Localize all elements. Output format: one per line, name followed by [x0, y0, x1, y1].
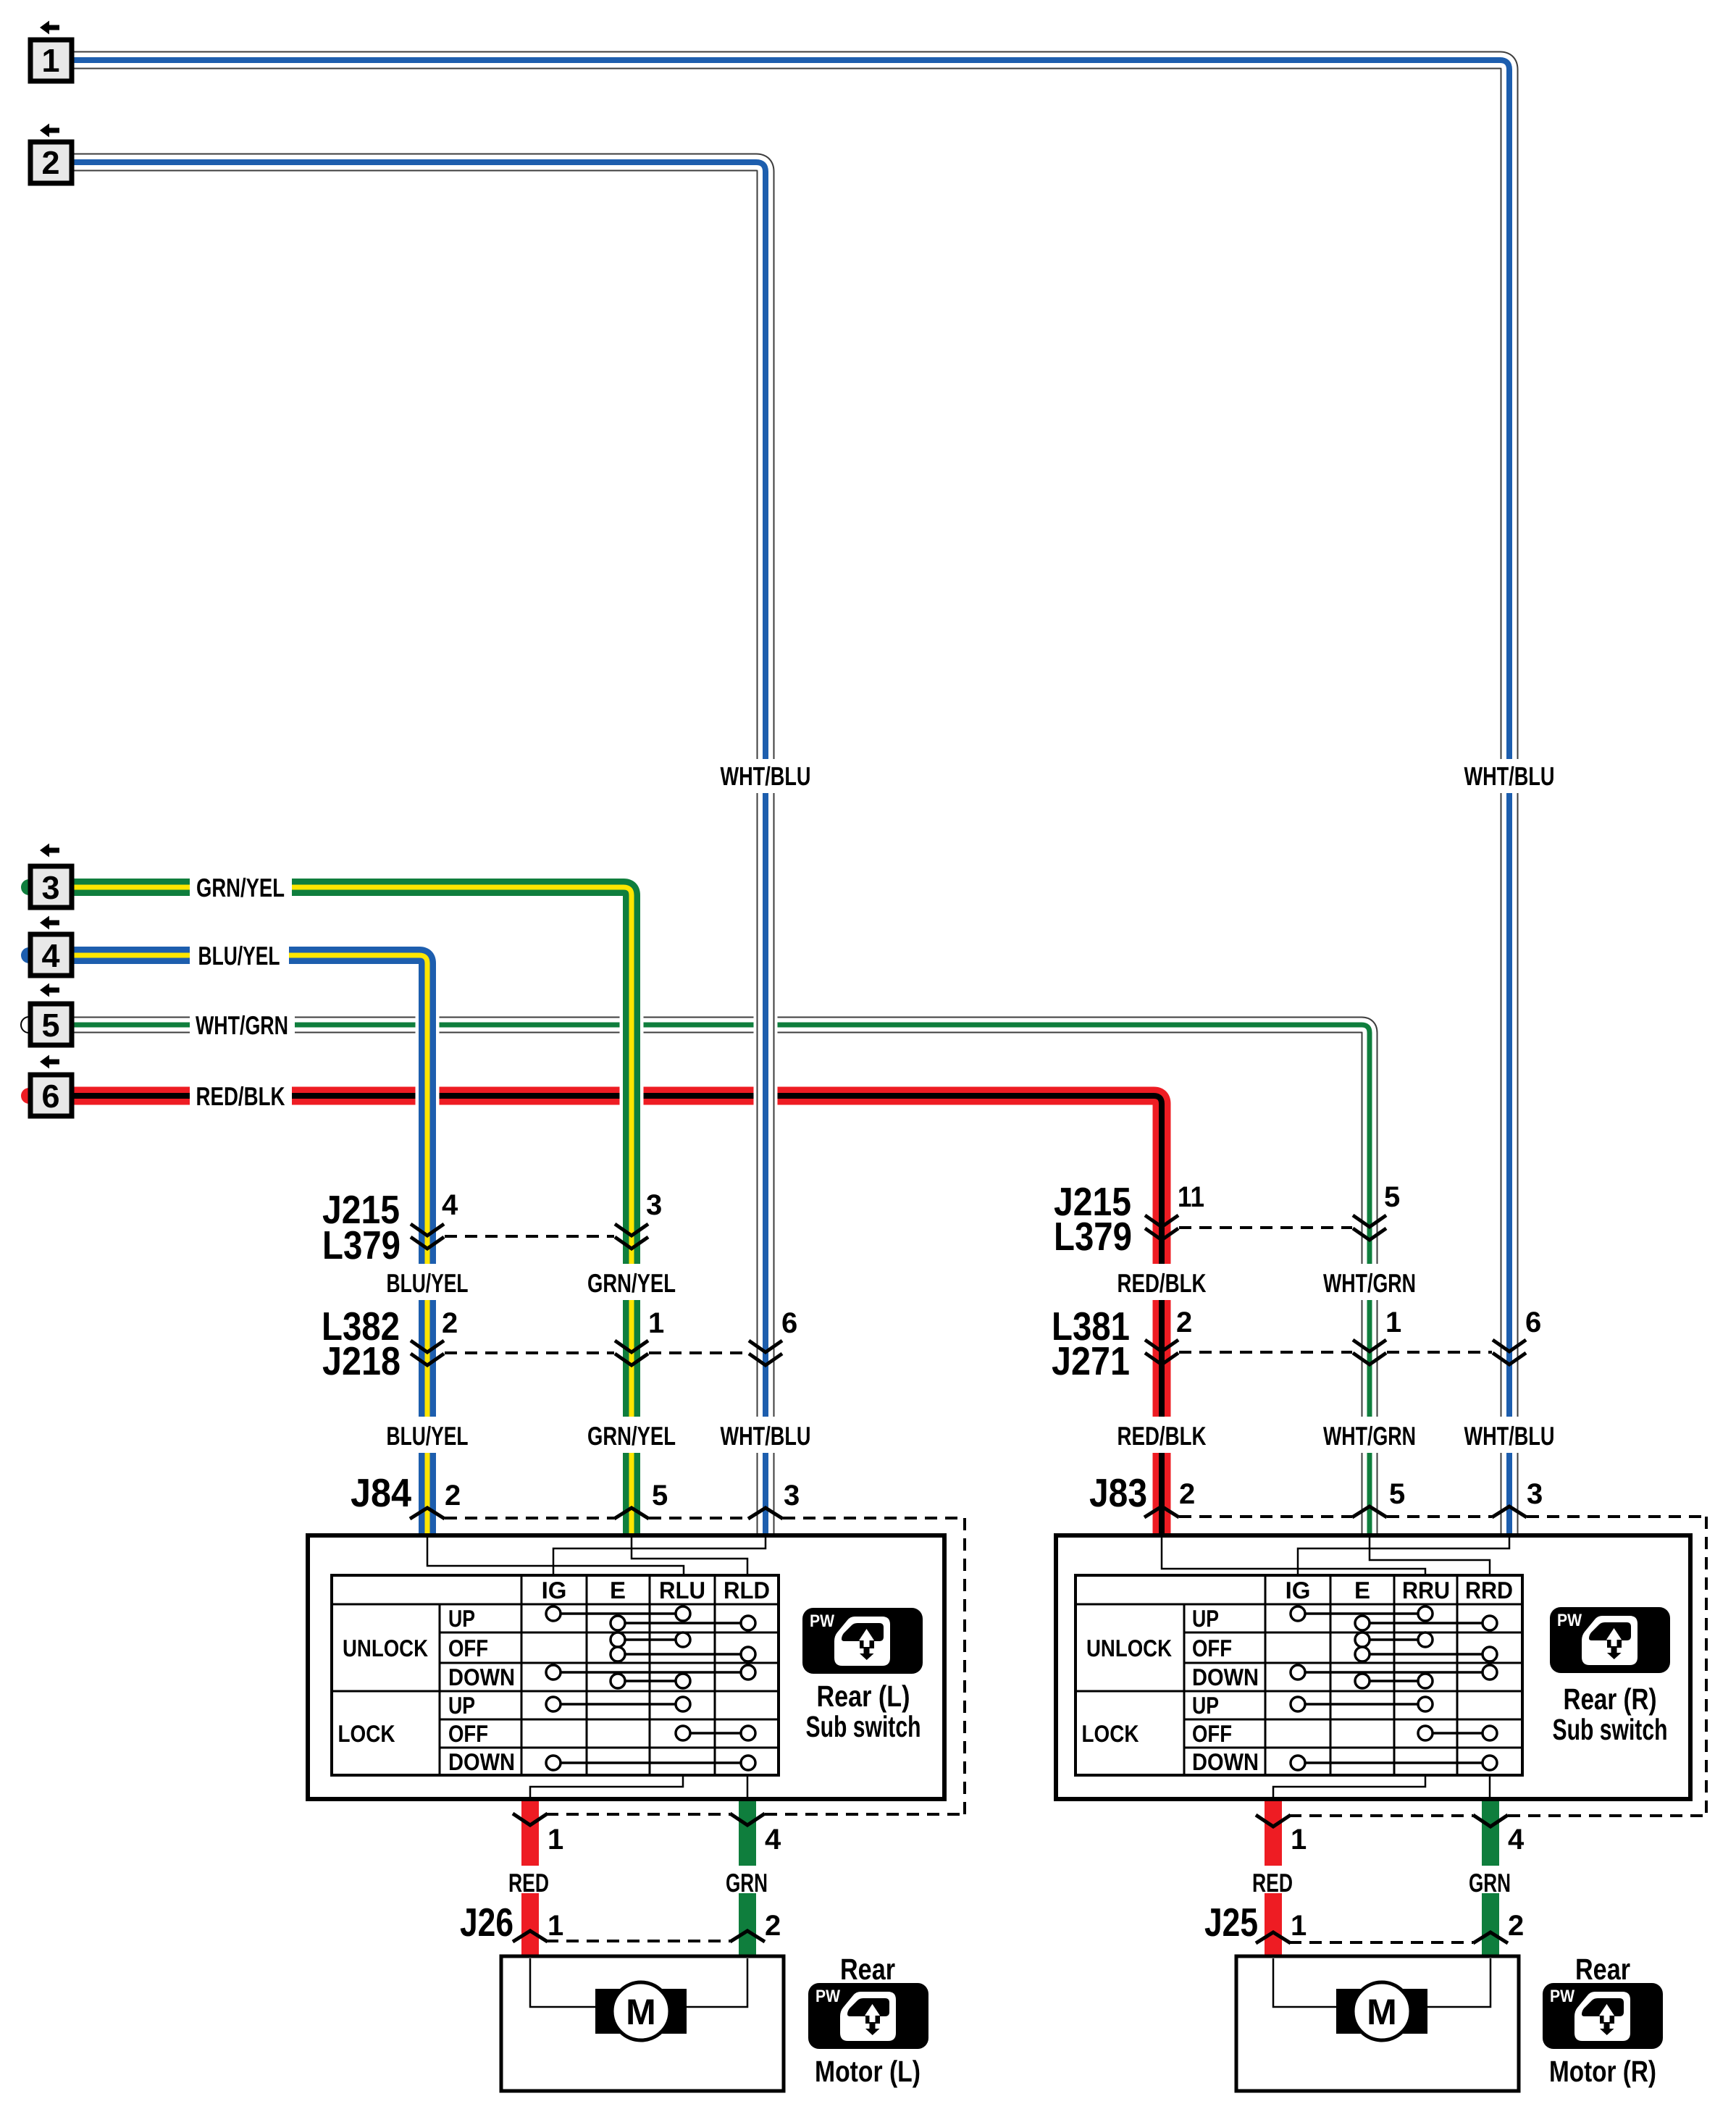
svg-text:OFF: OFF [448, 1720, 488, 1747]
wire label RED/BLK [190, 1079, 292, 1112]
connector pin symbol J83 pin 3 [1492, 1506, 1527, 1517]
motor M symbol left [595, 1982, 687, 2040]
svg-text:UP: UP [1192, 1692, 1219, 1719]
wire inside left sub switch from RLU to pin 1 [530, 1775, 683, 1801]
svg-text:GRN/YEL: GRN/YEL [587, 1421, 676, 1451]
svg-text:DOWN: DOWN [448, 1748, 515, 1775]
svg-text:5: 5 [41, 1007, 59, 1044]
svg-text:J84: J84 [351, 1470, 411, 1515]
svg-text:L379: L379 [322, 1223, 401, 1267]
right switch contacts [1291, 1606, 1497, 1770]
svg-text:2: 2 [445, 1480, 461, 1512]
svg-text:1: 1 [548, 1910, 563, 1942]
wire label WHT/BLU below L381 [1461, 1417, 1558, 1453]
svg-text:Sub switch: Sub switch [1553, 1713, 1668, 1746]
svg-text:M: M [626, 1992, 656, 2032]
junction L382 J218 dashed line [445, 1351, 748, 1354]
connector 4 box [30, 934, 72, 976]
svg-text:WHT/BLU: WHT/BLU [1464, 761, 1555, 791]
svg-text:BLU/YEL: BLU/YEL [198, 941, 280, 971]
wire RED from left sub switch pin 1 to J26 pin 1 [521, 1799, 539, 1956]
svg-text:2: 2 [41, 144, 59, 181]
svg-text:RLD: RLD [724, 1577, 770, 1604]
wire label GRN/YEL below J215 [578, 1264, 685, 1300]
svg-text:1: 1 [548, 1824, 563, 1856]
connector pin symbol J84 pin 2 [410, 1508, 445, 1519]
svg-text:OFF: OFF [448, 1635, 488, 1661]
wire GRN/YEL from connector 3 to J84 pin 5 [73, 887, 632, 1536]
wire label RED left [507, 1866, 553, 1898]
svg-text:6: 6 [781, 1307, 797, 1339]
svg-text:GRN: GRN [1469, 1868, 1511, 1898]
svg-text:1: 1 [648, 1307, 664, 1339]
connector J26 dashed line [546, 1940, 730, 1942]
svg-text:2: 2 [1176, 1307, 1192, 1338]
svg-text:UP: UP [448, 1605, 475, 1632]
svg-text:1: 1 [1291, 1824, 1307, 1856]
connector 1 box [30, 40, 72, 81]
svg-text:Rear (R): Rear (R) [1564, 1682, 1657, 1716]
svg-text:2: 2 [1179, 1478, 1195, 1510]
wire RED from right sub switch pin 1 to J25 pin 1 [1265, 1799, 1282, 1956]
connector 1 arrow [40, 21, 59, 35]
motor left box [501, 1956, 784, 2091]
wire inside right sub switch from RED/BLK to RRU [1162, 1538, 1425, 1576]
svg-text:5: 5 [1384, 1181, 1400, 1213]
wire inside right sub switch from RRD to pin 4 [1489, 1775, 1491, 1801]
svg-text:5: 5 [652, 1480, 668, 1512]
svg-text:LOCK: LOCK [338, 1720, 395, 1747]
svg-text:UNLOCK: UNLOCK [1086, 1635, 1172, 1661]
svg-text:J271: J271 [1052, 1338, 1130, 1383]
svg-text:Motor (L): Motor (L) [815, 2055, 921, 2088]
svg-text:2: 2 [442, 1307, 458, 1339]
svg-text:5: 5 [1389, 1478, 1405, 1510]
svg-text:UP: UP [448, 1692, 475, 1719]
junction symbol on BLU/YEL at J215 pin 4 [411, 1224, 444, 1249]
junction symbol on WHT/GRN at right J215 pin 5 [1353, 1215, 1386, 1240]
connector pin symbol J84 pin 5 [614, 1508, 649, 1519]
svg-text:RED/BLK: RED/BLK [1118, 1268, 1207, 1298]
svg-text:WHT/BLU: WHT/BLU [721, 761, 811, 791]
svg-text:Rear: Rear [1575, 1953, 1630, 1986]
svg-text:RRU: RRU [1402, 1577, 1450, 1604]
junction symbol on WHT/GRN at L381 pin 1 [1353, 1340, 1386, 1364]
PW icon right sub switch [1550, 1607, 1670, 1673]
connector 2 box [30, 142, 72, 183]
wire label WHT/BLU on right vertical [1461, 759, 1558, 793]
connector 3 arrow [40, 844, 59, 858]
connector pin symbol J26 pin 1 [513, 1931, 548, 1942]
svg-text:RRD: RRD [1465, 1577, 1513, 1604]
wire label GRN/YEL below L382 [578, 1417, 685, 1453]
wire inside left motor box [530, 1958, 747, 2007]
svg-text:WHT/GRN: WHT/GRN [1323, 1421, 1416, 1451]
wire label WHT/GRN below L381 [1317, 1417, 1422, 1453]
junction symbol on GRN/YEL at J215 pin 3 [615, 1224, 648, 1249]
svg-text:J218: J218 [322, 1338, 401, 1383]
svg-text:4: 4 [1508, 1824, 1525, 1856]
wire inside left sub switch from GRN/YEL to RLD [632, 1538, 747, 1576]
svg-text:GRN/YEL: GRN/YEL [587, 1268, 676, 1298]
svg-text:2: 2 [765, 1910, 781, 1942]
connector 5 box [30, 1004, 72, 1045]
wire label GRN right [1467, 1866, 1514, 1898]
wire label BLU/YEL below J215 [375, 1264, 479, 1300]
wire label BLU/YEL [190, 939, 289, 972]
svg-text:1: 1 [1291, 1910, 1307, 1942]
svg-text:RLU: RLU [659, 1577, 705, 1604]
PW icon left sub switch [802, 1608, 923, 1674]
wire label WHT/BLU below L382 [717, 1417, 814, 1453]
wire inside right motor box [1273, 1958, 1490, 2007]
wire BLU/YEL from connector 4 to J84 pin 2 [73, 955, 427, 1536]
wire inside left sub switch from RLD to pin 4 [747, 1775, 749, 1801]
junction symbol on RED/BLK at L381 pin 2 [1145, 1340, 1178, 1364]
wire GRN from right sub switch pin 4 to J25 pin 2 [1482, 1799, 1499, 1956]
svg-text:RED: RED [508, 1868, 549, 1898]
PW icon left motor [808, 1983, 928, 2049]
motor M symbol right [1336, 1982, 1427, 2040]
svg-text:LOCK: LOCK [1082, 1720, 1139, 1747]
svg-text:IG: IG [542, 1577, 567, 1604]
svg-text:RED/BLK: RED/BLK [1118, 1421, 1207, 1451]
PW icon right motor [1543, 1983, 1663, 2049]
connector pin symbol J26 pin 2 [730, 1931, 765, 1942]
svg-text:6: 6 [41, 1078, 59, 1115]
svg-text:L379: L379 [1054, 1214, 1132, 1259]
svg-text:J83: J83 [1089, 1470, 1147, 1515]
left switch table grid [332, 1575, 779, 1775]
connector pin symbol J84 pin 3 [748, 1508, 783, 1519]
wire inside left sub switch from WHT/BLU to IG [553, 1538, 766, 1576]
wire WHT/GRN from connector 5 to J83 pin 5 [73, 1025, 1370, 1536]
junction symbol on BLU/YEL at L382 pin 2 [411, 1341, 444, 1365]
wire WHT/BLU from connector 2 to J84 pin 3 [73, 162, 766, 1536]
connector 4 wire end bump blue [21, 947, 29, 963]
svg-text:2: 2 [1508, 1910, 1524, 1942]
svg-text:GRN/YEL: GRN/YEL [196, 873, 285, 902]
svg-text:3: 3 [646, 1189, 662, 1221]
svg-text:IG: IG [1286, 1577, 1311, 1604]
svg-text:OFF: OFF [1192, 1635, 1232, 1661]
svg-text:UP: UP [1192, 1605, 1219, 1632]
connector J84 dashed boundary [445, 1518, 965, 1814]
connector 2 arrow [40, 124, 59, 138]
svg-text:4: 4 [765, 1824, 781, 1856]
connector 6 wire end bump red [21, 1088, 29, 1104]
svg-text:GRN: GRN [726, 1868, 768, 1898]
svg-text:E: E [1354, 1577, 1370, 1604]
svg-text:BLU/YEL: BLU/YEL [387, 1268, 469, 1298]
svg-text:4: 4 [41, 937, 59, 974]
wire label GRN/YEL [190, 871, 292, 904]
svg-text:RED/BLK: RED/BLK [196, 1081, 285, 1111]
connector J83 dashed boundary [1179, 1517, 1706, 1816]
wire inside right sub switch from WHT/GRN to RRD [1370, 1538, 1490, 1576]
junction symbol on WHT/BLU at L382 pin 6 [749, 1341, 782, 1365]
connector 6 arrow [40, 1055, 59, 1069]
junction symbol on WHT/BLU at L381 pin 6 [1493, 1340, 1526, 1364]
svg-text:3: 3 [1527, 1478, 1543, 1510]
svg-text:WHT/GRN: WHT/GRN [1323, 1268, 1416, 1298]
wire WHT/BLU from connector 1 to J83 pin 3 [73, 60, 1509, 1536]
wire label RED right [1250, 1866, 1296, 1898]
connector pin symbol J25 pin 1 [1256, 1932, 1291, 1943]
connector 3 wire end bump green [21, 879, 29, 895]
junction symbol on GRN/YEL at L382 pin 1 [615, 1341, 648, 1365]
svg-text:BLU/YEL: BLU/YEL [387, 1421, 469, 1451]
right switch table grid [1075, 1575, 1522, 1775]
wire RED/BLK from connector 6 to J83 pin 2 [73, 1096, 1162, 1536]
connector J25 dashed line [1289, 1941, 1473, 1944]
connector pin symbol left sub switch pin 1 [513, 1814, 548, 1825]
svg-text:WHT/GRN: WHT/GRN [196, 1010, 288, 1040]
svg-text:UNLOCK: UNLOCK [343, 1635, 428, 1661]
connector 3 box [30, 866, 72, 907]
wire label GRN left [724, 1866, 771, 1898]
svg-text:DOWN: DOWN [448, 1664, 515, 1690]
junction symbol on RED/BLK at right J215 pin 11 [1145, 1215, 1178, 1240]
connector 6 box [30, 1075, 72, 1116]
svg-text:Rear (L): Rear (L) [817, 1680, 910, 1713]
wire label WHT/BLU on left vertical [717, 759, 814, 793]
connector 5 wire end bump white [21, 1017, 29, 1033]
svg-text:Rear: Rear [840, 1953, 895, 1986]
svg-text:3: 3 [784, 1480, 800, 1512]
svg-text:J26: J26 [460, 1900, 513, 1945]
wire inside left sub switch from BLU/YEL to RLU [427, 1538, 684, 1576]
junction J215 L379 right dashed line [1179, 1226, 1352, 1229]
wire label WHT/GRN below right J215 [1317, 1264, 1422, 1300]
connector pin symbol J25 pin 2 [1473, 1932, 1508, 1943]
motor right box [1236, 1956, 1519, 2091]
rear right sub switch box [1056, 1535, 1690, 1799]
connector pin symbol J83 pin 5 [1352, 1506, 1387, 1517]
svg-text:Sub switch: Sub switch [806, 1710, 921, 1743]
connector pin symbol left sub switch pin 4 [730, 1814, 765, 1825]
svg-text:DOWN: DOWN [1192, 1664, 1259, 1690]
rear left sub switch box [308, 1535, 944, 1799]
wire inside right sub switch from RRU to pin 1 [1273, 1775, 1425, 1801]
wire label RED/BLK below right J215 [1110, 1264, 1214, 1300]
svg-text:4: 4 [442, 1189, 458, 1221]
connector 5 arrow [40, 984, 59, 997]
svg-text:DOWN: DOWN [1192, 1748, 1259, 1775]
connector pin symbol right sub switch pin 1 [1256, 1815, 1291, 1827]
svg-text:1: 1 [1385, 1307, 1401, 1338]
left switch contacts [546, 1606, 755, 1770]
connector pin symbol J83 pin 2 [1144, 1506, 1179, 1517]
svg-text:M: M [1367, 1992, 1397, 2032]
svg-text:OFF: OFF [1192, 1720, 1232, 1747]
svg-text:11: 11 [1178, 1181, 1204, 1213]
wire label BLU/YEL below L382 [375, 1417, 479, 1453]
wire inside right sub switch from WHT/BLU to IG [1298, 1538, 1509, 1576]
wire GRN from left sub switch pin 4 to J26 pin 2 [739, 1799, 756, 1956]
svg-text:6: 6 [1525, 1307, 1541, 1338]
junction L381 J271 dashed line [1179, 1351, 1492, 1354]
svg-text:E: E [610, 1577, 626, 1604]
wire label WHT/GRN [190, 1008, 295, 1041]
svg-text:J25: J25 [1204, 1900, 1258, 1945]
svg-text:WHT/BLU: WHT/BLU [1464, 1421, 1555, 1451]
svg-text:1: 1 [41, 42, 59, 79]
svg-text:Motor (R): Motor (R) [1549, 2055, 1656, 2088]
connector pin symbol right sub switch pin 4 [1473, 1815, 1508, 1827]
junction J215 L379 left dashed line [445, 1235, 614, 1238]
svg-text:WHT/BLU: WHT/BLU [721, 1421, 811, 1451]
wire label RED/BLK below L381 [1110, 1417, 1214, 1453]
svg-text:RED: RED [1252, 1868, 1293, 1898]
svg-text:3: 3 [41, 869, 59, 906]
connector 4 arrow [40, 916, 59, 930]
